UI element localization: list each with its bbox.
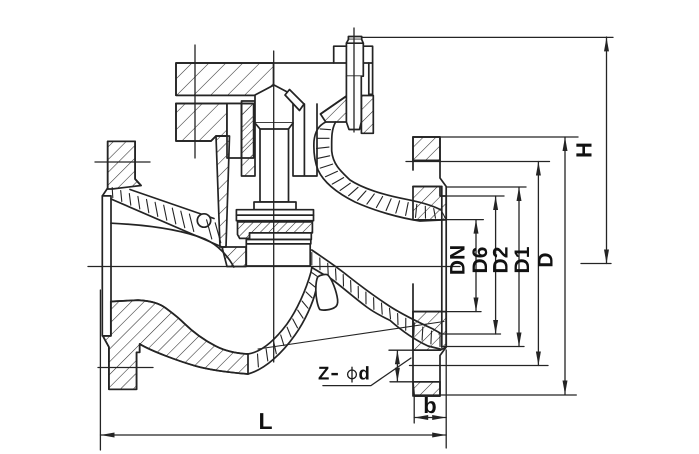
bridge band ticks: [248, 273, 317, 371]
dim b: [414, 417, 446, 419]
left flange bolt tick bottom: [98, 367, 153, 369]
vertical centerline valve: [273, 51, 275, 362]
bridge outer stroke: [248, 277, 318, 374]
guide column right lines: [293, 104, 317, 176]
horizontal centerline: [88, 266, 460, 268]
right flange outline: [413, 137, 446, 396]
disc lower band: [250, 233, 312, 240]
bonnet wall taper: [216, 136, 230, 247]
svg-text:d: d: [359, 363, 370, 384]
disc hatched band: [238, 222, 313, 239]
D1 arrows: [536, 162, 541, 176]
left flange top block: [108, 141, 141, 189]
bonnet top edge line: [176, 63, 346, 95]
ball detail: [197, 214, 210, 227]
guide column left hatched: [242, 101, 256, 176]
H arrows: [604, 37, 609, 51]
clamp arm: [334, 46, 373, 63]
dim D1: [537, 162, 539, 366]
b arrows: [414, 415, 428, 420]
stem: [255, 123, 293, 202]
dim phi-d: [396, 350, 398, 382]
collar: [254, 202, 296, 210]
bore top silhouette: [111, 223, 234, 267]
svg-text:D: D: [535, 252, 558, 267]
svg-text:b: b: [423, 393, 436, 418]
arrowheads: [101, 37, 610, 437]
svg-text:D2: D2: [490, 247, 513, 274]
dim L: [101, 434, 447, 436]
bonnet body flange col: [242, 104, 254, 159]
dim H: [606, 37, 608, 264]
stud collar: [348, 37, 361, 40]
raised face root line: [441, 187, 443, 348]
top line to H: [362, 36, 613, 38]
cone band ticks: [112, 188, 221, 243]
left raised face strip: [102, 196, 111, 336]
svg-text:L: L: [258, 408, 272, 434]
dim D: [564, 137, 566, 395]
svg-text:DN: DN: [447, 245, 470, 275]
DN arrows: [474, 220, 479, 234]
dim DN: [475, 220, 477, 312]
skirt lower stroke: [312, 268, 440, 350]
skirt band ticks: [312, 253, 440, 347]
ext lines right: [440, 136, 578, 138]
svg-text:D6: D6: [469, 247, 492, 274]
flange hole lines: [413, 160, 440, 162]
U band ticks: [317, 122, 446, 218]
right flange hatched bands: [413, 137, 440, 161]
plate second: [236, 215, 313, 221]
stud shank: [346, 76, 361, 129]
disc pentagon: [255, 85, 293, 123]
bonnet body flange left: [176, 104, 227, 142]
bridge inner stroke: [248, 268, 312, 355]
stud centerline: [353, 28, 355, 132]
bonnet right chamfer block: [321, 96, 347, 122]
skirt upper stroke: [312, 250, 440, 333]
left flange bolt tick top: [95, 161, 150, 163]
svg-text:Z: Z: [318, 363, 329, 384]
bonnet block right of shank: [361, 96, 373, 134]
dim D2: [518, 187, 520, 347]
gasket gap lines: [176, 94, 254, 96]
left bottom hub and flange block: [103, 300, 248, 389]
D2 arrows: [517, 187, 522, 201]
D6 arrows: [493, 196, 498, 210]
teardrop pocket: [316, 274, 338, 310]
D arrows: [563, 137, 568, 151]
phi-d arrows: [395, 350, 400, 364]
L arrows: [101, 433, 115, 438]
bonnet slot: [227, 104, 242, 159]
seat block: [246, 244, 310, 266]
guide vane bar: [285, 90, 304, 111]
outlet cone line: [258, 322, 444, 350]
clamp bar right: [369, 63, 373, 94]
svg-text:H: H: [572, 142, 597, 158]
leader Z-phi-d: [323, 358, 411, 386]
dim D6: [495, 196, 497, 334]
bonnet top plate: [176, 63, 274, 95]
seat left wedge: [222, 247, 246, 267]
left cone band hatched: [130, 190, 214, 219]
disc lower band 2: [246, 240, 310, 244]
stud nut: [346, 40, 363, 77]
bonnet bolt centerline: [194, 45, 196, 158]
plate top: [236, 210, 313, 216]
svg-text:D1: D1: [511, 246, 534, 273]
